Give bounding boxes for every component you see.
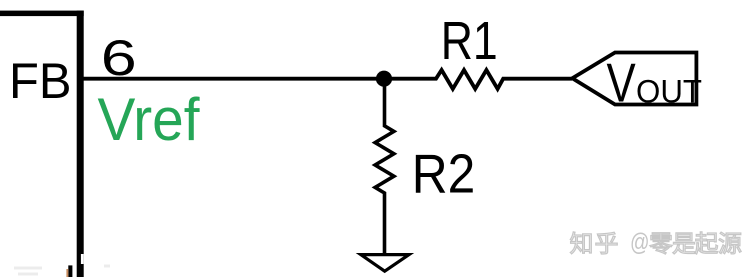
svg-text:6: 6	[101, 29, 137, 86]
svg-text:Vref: Vref	[98, 86, 200, 153]
svg-text:OUT: OUT	[636, 74, 702, 110]
svg-text:FB: FB	[9, 53, 72, 109]
svg-text:R2: R2	[412, 143, 476, 204]
svg-text:R1: R1	[441, 11, 498, 71]
svg-text:@: @	[630, 229, 650, 257]
svg-text:V: V	[607, 52, 636, 114]
